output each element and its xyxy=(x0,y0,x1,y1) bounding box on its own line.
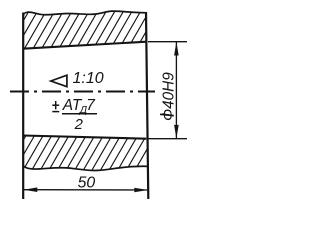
svg-text:1:10: 1:10 xyxy=(73,70,104,87)
svg-text:2: 2 xyxy=(74,117,84,133)
svg-text:50: 50 xyxy=(78,174,96,191)
svg-text:7: 7 xyxy=(86,97,96,114)
svg-text:Ф40Н9: Ф40Н9 xyxy=(161,72,178,121)
